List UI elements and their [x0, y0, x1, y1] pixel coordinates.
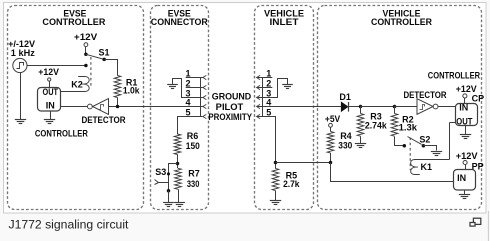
vehicle inlet boundary box — [255, 6, 314, 210]
wire pin 2 — [257, 87, 273, 89]
mechanical link S2-K1 — [409, 138, 411, 171]
svg-text:PROXIMITY: PROXIMITY — [208, 112, 252, 122]
svg-text:+5V: +5V — [325, 114, 340, 124]
vehicle controller IN/OUT box — [456, 104, 478, 126]
svg-text:1 kHz: 1 kHz — [11, 48, 36, 58]
wire pilot line EVSE to connector pin 4 — [109, 106, 203, 108]
svg-text:+12V: +12V — [74, 32, 97, 42]
ground (vehicle controller box) — [465, 126, 467, 135]
EVSE controller OUT/IN box — [38, 88, 61, 112]
EVSE controller boundary box — [8, 6, 144, 210]
wire S3 to ground — [168, 191, 170, 202]
wire proximity junction to vehicle — [276, 162, 331, 164]
wire S1 common to R1 — [105, 60, 118, 76]
wire R2 to S2 — [395, 137, 403, 146]
relay coil K2 — [61, 77, 90, 92]
svg-text:R7: R7 — [188, 169, 200, 179]
wire pin 4 pilot to D1 — [257, 106, 342, 108]
wire R6 to junction — [177, 155, 179, 169]
resistor R5 2.7k — [272, 168, 279, 190]
wire pin 1 — [257, 77, 273, 79]
wire R5 to ground — [275, 191, 277, 201]
wire pin 5 to R5 junction — [257, 117, 276, 169]
wire D1 to R3 junction — [348, 106, 360, 108]
svg-text:S3: S3 — [155, 167, 166, 177]
wire K1 to controller OUT — [449, 123, 451, 160]
wire R3 junction to R2 junction — [361, 106, 395, 108]
wire pin 5 to R6 — [178, 117, 203, 135]
wire junction to S3 — [169, 164, 178, 191]
svg-text:CONTROLLER: CONTROLLER — [42, 17, 105, 28]
ground (S2) — [431, 151, 442, 153]
wire terminal to controller box — [49, 81, 51, 87]
svg-text:S1: S1 — [98, 47, 109, 57]
svg-text:IN: IN — [46, 101, 55, 111]
node R3 junction — [359, 105, 363, 109]
wire R2 junction to detector — [395, 106, 418, 108]
svg-text:K2: K2 — [71, 79, 83, 89]
ground (R7) — [174, 202, 185, 204]
wire S2 to ground — [424, 146, 437, 151]
svg-text:CONNECTOR: CONNECTOR — [151, 17, 208, 28]
node proximity junction — [274, 161, 278, 165]
resistor R7 330 — [175, 168, 182, 189]
wire pin 2 — [186, 87, 203, 89]
resistor R2 1.3k — [394, 107, 396, 114]
svg-text:2.74k: 2.74k — [365, 120, 388, 130]
mechanical link S1-K2 — [90, 57, 92, 88]
oscillator source — [13, 58, 27, 72]
svg-text:DETECTOR: DETECTOR — [82, 115, 126, 125]
+12V terminal for S1 — [84, 43, 88, 47]
wire R1 to pilot junction — [117, 98, 119, 107]
node pilot junction — [116, 105, 120, 109]
switch S2 — [403, 144, 407, 148]
node R6/R7/S3 junction — [176, 162, 180, 166]
svg-text:1.3k: 1.3k — [399, 123, 418, 133]
wire proximity to PP box — [331, 163, 454, 182]
wire pin 3 to ground — [257, 79, 288, 98]
svg-text:150: 150 — [186, 141, 200, 151]
svg-text:OUT: OUT — [456, 117, 473, 127]
wire pin 1 — [186, 77, 203, 79]
svg-text:330: 330 — [187, 179, 200, 189]
ground (R3) — [355, 143, 366, 145]
+5V terminal — [329, 123, 333, 127]
svg-text:1.0k: 1.0k — [123, 86, 141, 96]
svg-text:330: 330 — [338, 141, 352, 151]
svg-text:D1: D1 — [339, 92, 351, 102]
wire detector to controller IN — [438, 106, 456, 108]
inlet body line — [262, 78, 264, 117]
svg-text:CP: CP — [472, 94, 485, 104]
svg-text:+12V: +12V — [38, 67, 59, 77]
+12V terminal controller — [48, 78, 51, 81]
vehicle PP IN box — [454, 170, 476, 191]
connector body line — [200, 78, 202, 117]
svg-text:+12V: +12V — [456, 84, 477, 94]
svg-text:IN: IN — [459, 102, 468, 112]
svg-text:J1772 signaling circuit: J1772 signaling circuit — [9, 217, 130, 231]
node R4/proximity junction — [329, 161, 333, 165]
resistor R4 330 — [330, 127, 332, 131]
svg-text:CONTROLLER: CONTROLLER — [428, 70, 481, 80]
svg-text:DETECTOR: DETECTOR — [403, 90, 447, 100]
svg-text:K1: K1 — [421, 162, 433, 172]
EVSE connector boundary box — [151, 6, 209, 210]
relay coil K1 — [411, 160, 450, 175]
svg-text:OUT: OUT — [43, 87, 59, 97]
wire controller IN to detector — [61, 106, 88, 108]
wire pin 3 to ground — [173, 79, 203, 98]
svg-text:+12V: +12V — [456, 151, 478, 161]
magnify icon — [473, 218, 480, 224]
wire +12V terminal to S1 throw — [85, 47, 87, 55]
+12V terminal (PP) — [463, 160, 467, 164]
wire R4 to proximity junction — [330, 153, 332, 163]
wire R7 to ground — [178, 189, 180, 202]
wire oscillator to ground — [20, 72, 22, 119]
svg-text:S2: S2 — [419, 134, 430, 144]
switch S1 — [84, 53, 88, 57]
svg-text:2.7k: 2.7k — [283, 179, 300, 189]
ground (R5) — [270, 200, 281, 202]
wire oscillator to S1 throw — [27, 65, 86, 67]
vehicle controller boundary box — [318, 6, 482, 210]
ground (PP box) — [464, 190, 466, 195]
wire R3 to ground — [360, 136, 362, 143]
resistor R1 — [114, 76, 121, 98]
+12V terminal (CP) — [463, 94, 467, 98]
svg-text:R6: R6 — [187, 131, 199, 141]
ground (connector pin 3) — [167, 84, 178, 86]
svg-text:CONTROLLER: CONTROLLER — [35, 129, 88, 139]
svg-text:GROUND: GROUND — [212, 91, 252, 101]
svg-text:PILOT: PILOT — [216, 102, 244, 112]
svg-text:CONTROLLER: CONTROLLER — [371, 17, 432, 28]
resistor R3 2.74k — [360, 107, 362, 114]
svg-text:INLET: INLET — [270, 17, 299, 28]
ground (controller box) — [50, 111, 52, 120]
resistor R6 150 — [174, 134, 181, 155]
node R2 junction — [393, 105, 397, 109]
svg-text:4: 4 — [185, 98, 190, 108]
ground (inlet pin 3) — [282, 84, 293, 86]
ground (oscillator) — [15, 119, 26, 121]
ground (S3) — [163, 202, 174, 204]
op-amp detector (EVSE) — [88, 104, 93, 109]
svg-text:IN: IN — [457, 173, 466, 183]
